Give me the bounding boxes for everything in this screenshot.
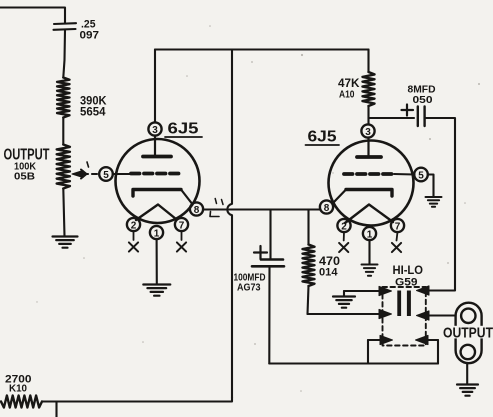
label OUTPUT / 100K / 05B bbox=[4, 147, 50, 183]
tube V1 cathode bbox=[133, 190, 192, 204]
wire: stub to bottom edge bbox=[55, 402, 57, 417]
wire+arrow: 470 into switch (left bottom) bbox=[308, 309, 392, 318]
value label 470 / 014 bbox=[319, 256, 340, 279]
svg-text:7: 7 bbox=[395, 222, 401, 233]
ground (V2 pin 1) bbox=[362, 265, 378, 276]
ground (below pot) bbox=[53, 237, 78, 248]
tube V1 grid (dashed) bbox=[113, 173, 183, 176]
arrow: box into switch (bottom right) bbox=[416, 335, 429, 344]
wire: top-left feed from left edge to coupling cap bbox=[0, 8, 65, 24]
connector OUTPUT top contact bbox=[461, 309, 475, 323]
value label 47K / A10 bbox=[338, 78, 360, 101]
resistor 2700 (K10) bbox=[1, 396, 42, 408]
tube V2 6J5 label bbox=[306, 129, 340, 146]
arrow: right rail into switch (right top) bbox=[417, 286, 430, 295]
svg-text:3: 3 bbox=[152, 125, 158, 136]
capacitor 100MFD (AG73) with + bbox=[252, 210, 284, 364]
svg-text:8: 8 bbox=[194, 205, 200, 216]
pin 1 of V2 bbox=[363, 227, 376, 241]
svg-text:3: 3 bbox=[365, 127, 371, 138]
tube V2 plate bbox=[357, 138, 381, 158]
pin 7 of V1 with X bbox=[175, 218, 188, 252]
capacitor 8MFD (050) with + bbox=[402, 105, 425, 127]
value label .25 / 097 bbox=[80, 19, 100, 42]
svg-text:014: 014 bbox=[319, 267, 338, 279]
paper noise specks (decorative) bbox=[36, 25, 480, 392]
wire: mid vertical rail with hop over pin-8 bus bbox=[227, 50, 232, 398]
resistor 47K (A10) bbox=[363, 50, 375, 125]
svg-text:5: 5 bbox=[418, 171, 424, 182]
svg-text:050: 050 bbox=[413, 94, 433, 106]
pin 8 of V1 bbox=[190, 202, 203, 216]
resistor 390K (5654) bbox=[57, 78, 69, 118]
svg-text:05B: 05B bbox=[14, 172, 35, 183]
wire: V1 pin 1 to ground bbox=[156, 239, 158, 284]
tube V1 plate bbox=[143, 136, 171, 157]
svg-text:5: 5 bbox=[103, 170, 109, 181]
wire: pin-8 bus between tubes bbox=[203, 208, 320, 210]
pin 8 of V2 bbox=[320, 200, 333, 214]
svg-text:1: 1 bbox=[367, 230, 373, 241]
switch contact bars bbox=[397, 291, 411, 317]
ground (output jack) bbox=[457, 385, 478, 396]
capacitor .25 (097) coupling bbox=[54, 23, 77, 30]
transformer box bbox=[368, 340, 438, 364]
connector OUTPUT jack body bbox=[456, 303, 482, 364]
tube V1 6J5 label bbox=[165, 121, 202, 138]
node scribble near V1 pin 8 bbox=[210, 199, 223, 217]
tube V2 6J5 envelope bbox=[329, 141, 414, 226]
label HI-LO / G59 bbox=[393, 263, 424, 289]
tube V2 heater bbox=[345, 205, 393, 224]
svg-text:2: 2 bbox=[341, 222, 347, 233]
wire+arrow: output jack into switch (right bottom) bbox=[417, 311, 456, 320]
tube V1 6J5 envelope bbox=[116, 139, 200, 223]
svg-text:6J5: 6J5 bbox=[168, 121, 199, 138]
value label 100MFD / AG73 bbox=[234, 273, 266, 294]
ground (V1 pin 1) bbox=[143, 285, 170, 296]
wire+arrow: ground into switch (left top) bbox=[344, 286, 392, 295]
pin 7 of V2 with X bbox=[391, 219, 404, 252]
svg-text:5654: 5654 bbox=[80, 107, 106, 119]
svg-text:6J5: 6J5 bbox=[308, 129, 337, 146]
svg-text:AG73: AG73 bbox=[237, 283, 261, 294]
pin 1 of V1 bbox=[150, 226, 163, 240]
wire: right rail from 8MFD down to switch bbox=[425, 118, 455, 291]
wire: top bus (V1 plate to 47K) bbox=[155, 48, 369, 50]
tube V2 grid (dashed) bbox=[344, 172, 415, 176]
value label 390K / 5654 bbox=[80, 96, 107, 119]
pin 3 of V1 bbox=[148, 122, 161, 136]
wire: bottom long run under box bbox=[269, 362, 438, 364]
value label 2700 / K10 bbox=[5, 374, 32, 395]
svg-text:A10: A10 bbox=[339, 89, 355, 101]
tube V2 cathode bbox=[333, 190, 392, 204]
wire: cap bottom to 390K top bbox=[63, 30, 65, 78]
pot wiper dashed arrow from pin 5 bbox=[72, 162, 99, 179]
value label 8MFD / 050 bbox=[408, 84, 436, 107]
arrow: box into switch (bottom left) bbox=[380, 335, 393, 344]
wire: V2 pin 1 to ground bbox=[368, 240, 370, 264]
svg-text:097: 097 bbox=[80, 30, 100, 42]
switch HI-LO (G59) dashed box bbox=[383, 287, 426, 346]
resistor 470 (014) bbox=[303, 210, 315, 315]
wire: plate node to 8MFD bbox=[369, 117, 415, 119]
connector OUTPUT bottom contact bbox=[461, 345, 475, 359]
pin 2 of V1 with X bbox=[127, 218, 140, 252]
pin 5 of V2 bbox=[414, 168, 428, 182]
wire: drop to V1 pin 3 bbox=[154, 50, 156, 123]
potentiometer 100K (05B) OUTPUT bbox=[57, 145, 70, 189]
svg-text:8: 8 bbox=[324, 203, 330, 214]
wire: jack to ground bbox=[466, 363, 468, 384]
svg-text:HI-LO: HI-LO bbox=[393, 263, 424, 277]
ground (V2 pin 5) bbox=[426, 197, 442, 207]
tube V1 heater bbox=[136, 205, 176, 221]
label OUTPUT (jack) bbox=[443, 325, 493, 342]
wire: 390K bottom to pot top bbox=[62, 118, 64, 145]
pin 5 of V1 bbox=[99, 167, 113, 181]
ground (switch input) bbox=[333, 291, 355, 308]
pin 3 of V2 bbox=[361, 124, 374, 138]
svg-text:OUTPUT: OUTPUT bbox=[443, 325, 493, 342]
pin 2 of V2 with X bbox=[337, 219, 350, 252]
wire: V2 pin 5 to ground bbox=[428, 175, 434, 197]
wire: pot bottom to ground bbox=[63, 189, 64, 237]
svg-text:7: 7 bbox=[179, 221, 185, 232]
svg-text:K10: K10 bbox=[9, 384, 27, 395]
svg-text:2: 2 bbox=[131, 221, 137, 232]
svg-text:1: 1 bbox=[154, 229, 160, 240]
wire: bottom-left bus bbox=[42, 397, 232, 402]
